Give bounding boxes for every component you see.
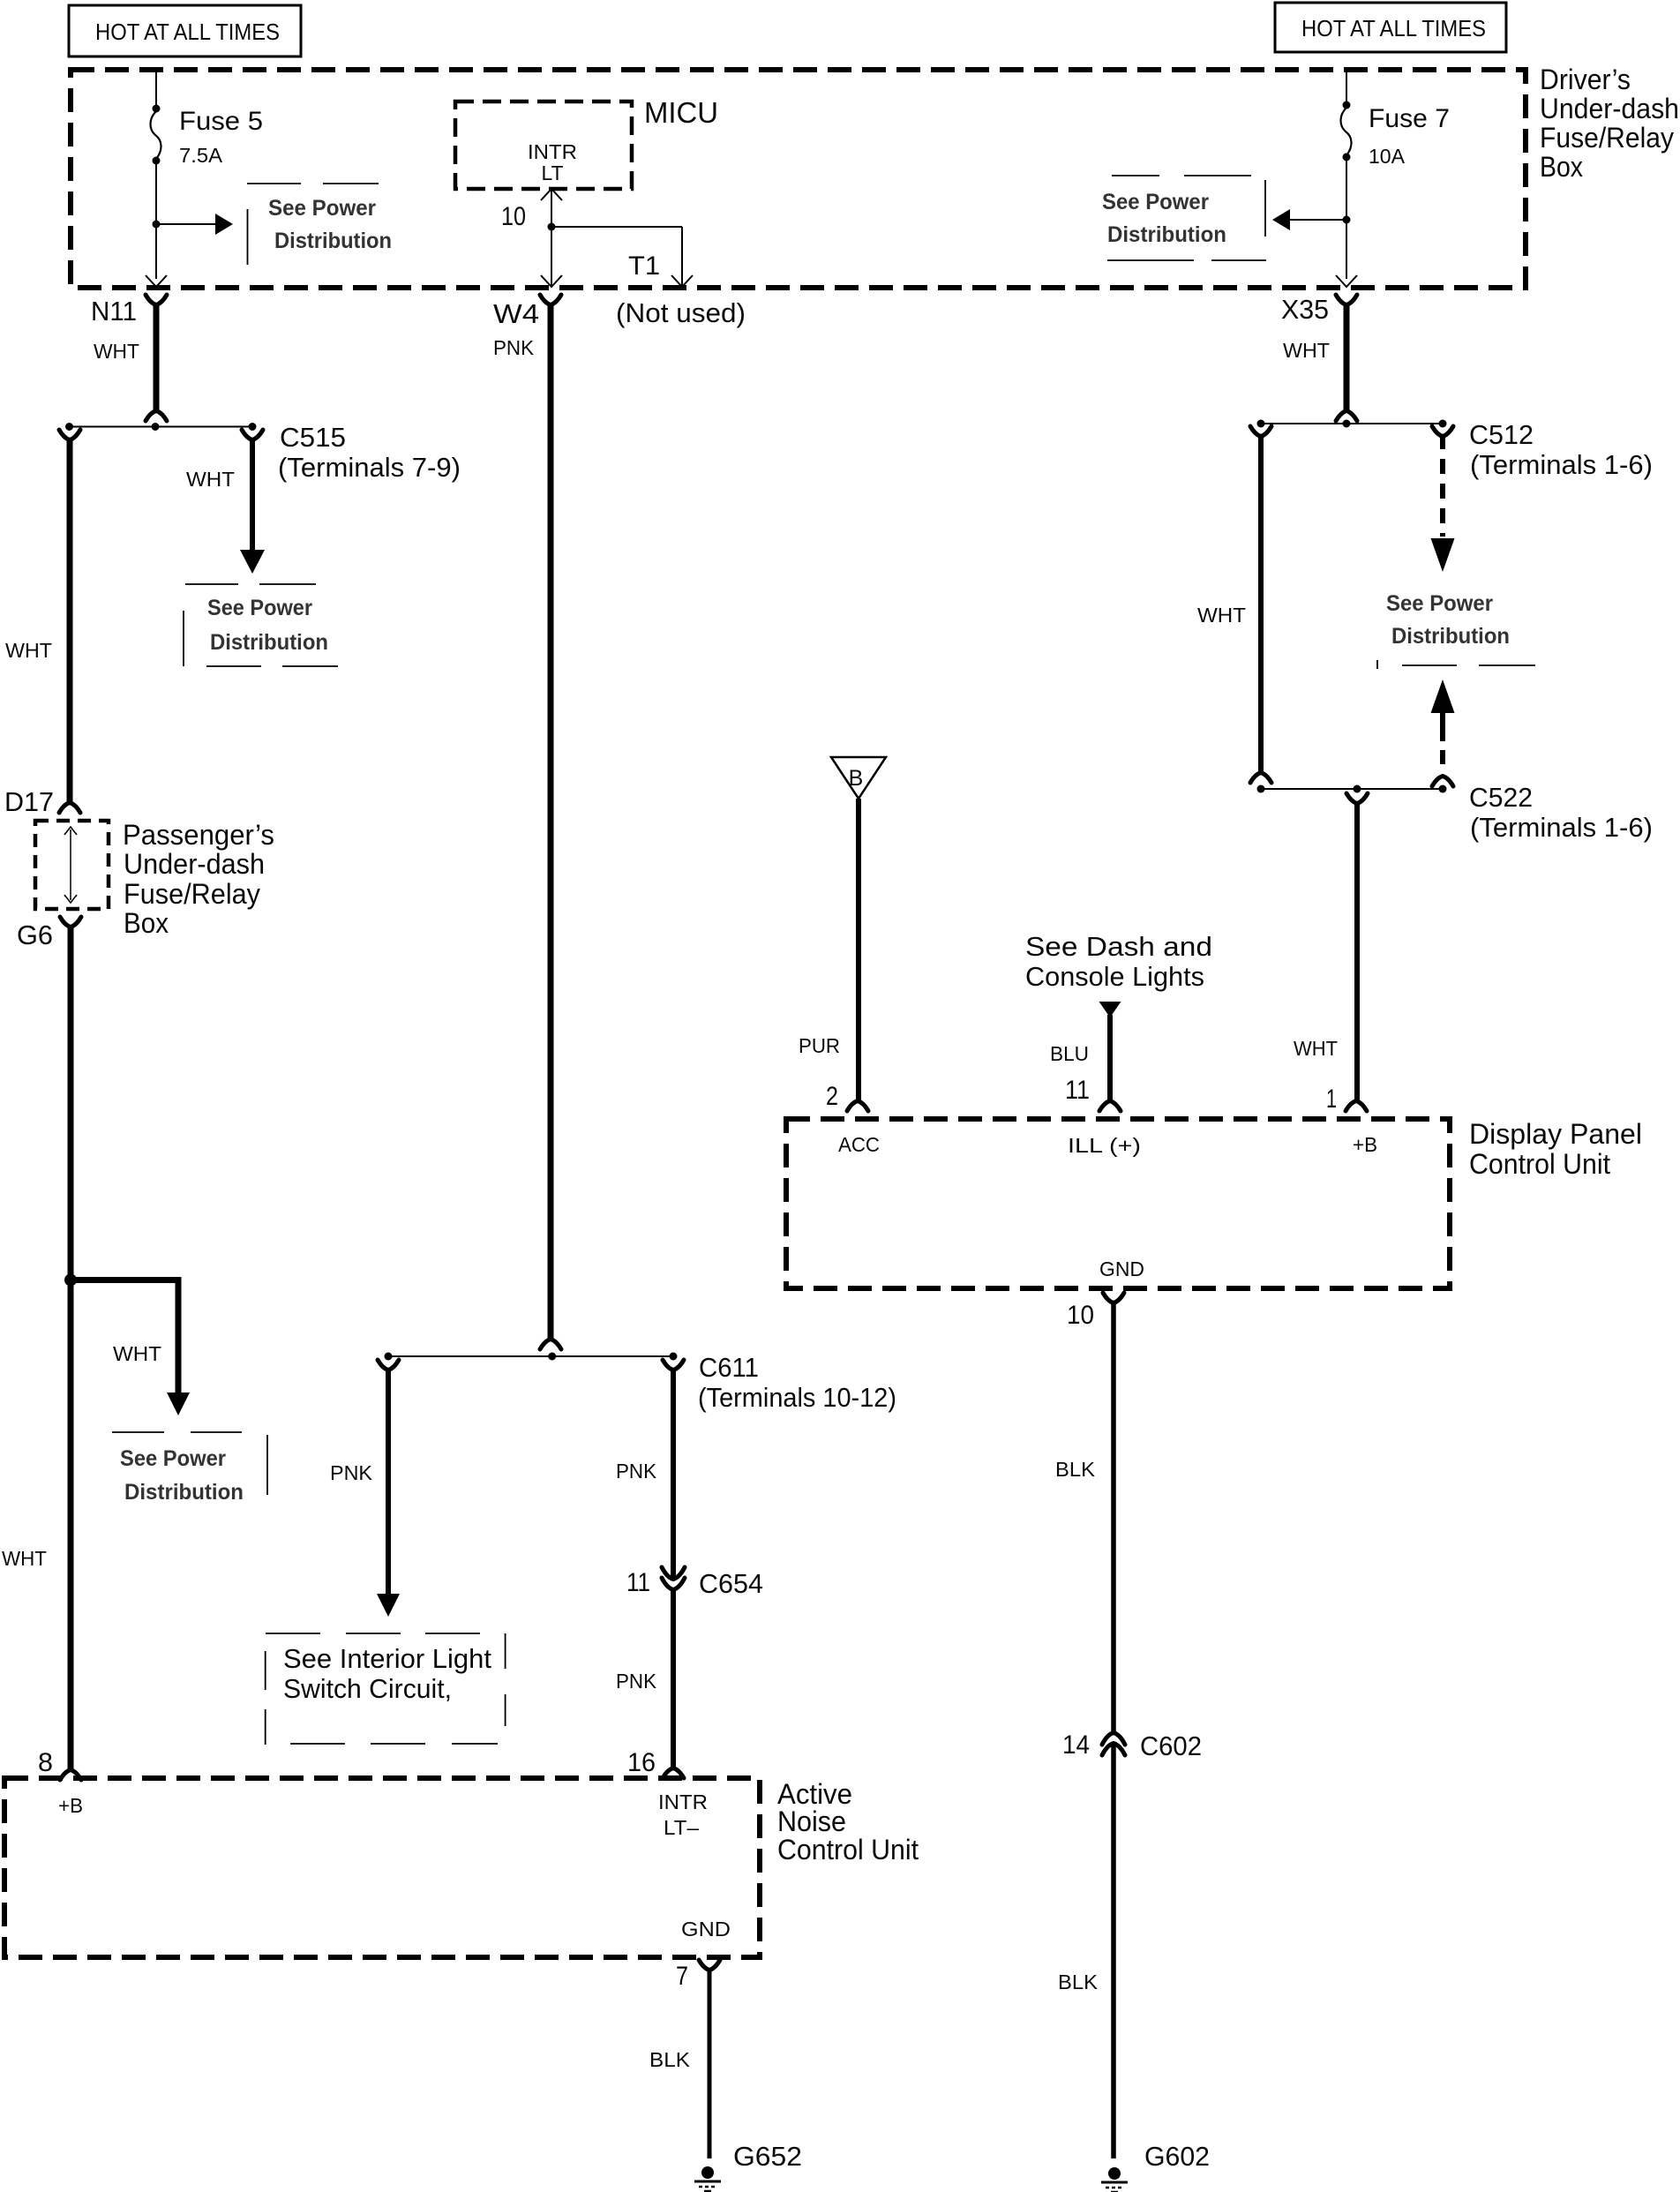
svg-text:ILL (+): ILL (+): [1068, 1134, 1141, 1157]
wire: display GND to C602 (BLK): [1103, 1293, 1124, 1733]
label: pin 10: [501, 202, 526, 231]
svg-text:C611: C611: [699, 1352, 759, 1383]
label: INTR LT pin: [528, 140, 577, 184]
open arrow into box edge at X35: [1336, 275, 1357, 287]
svg-text:BLK: BLK: [1055, 1458, 1096, 1481]
svg-text:Distribution: Distribution: [1107, 222, 1226, 247]
label: BLK (G652 wire): [649, 2048, 691, 2071]
open arrow into box edge at N11: [146, 275, 167, 287]
component box: Active Noise Control Unit: [4, 1778, 760, 1957]
svg-text:7: 7: [676, 1962, 688, 1991]
component box: MICU: [455, 101, 632, 189]
wire: X35 left branch (WHT): [1250, 426, 1271, 783]
svg-text:X35: X35: [1281, 294, 1329, 325]
wire: from box top to Fuse 5: [155, 71, 157, 107]
fuse F5 (Fuse 5, 7.5A): [151, 105, 161, 165]
label: +B pin (display): [1353, 1133, 1377, 1156]
reference: See Power Distribution (right middle): [1377, 591, 1535, 669]
inline connector C602 (pin 14): [1102, 1733, 1125, 1756]
label: Fuse 5 7.5A: [179, 107, 263, 167]
svg-text:See Power: See Power: [1386, 591, 1493, 616]
wire: up arrow to See Power Distribution: [1431, 679, 1455, 786]
label: 11 C654: [626, 1568, 763, 1599]
label: WHT (branch): [113, 1342, 161, 1365]
svg-text:Box: Box: [1540, 151, 1583, 183]
label: G6: [17, 920, 53, 950]
svg-text:PNK: PNK: [330, 1461, 373, 1484]
svg-text:Fuse 5: Fuse 5: [179, 107, 263, 136]
svg-text:14: 14: [1062, 1730, 1090, 1760]
label: pin 11: [1065, 1076, 1090, 1105]
label: Display Panel Control Unit: [1469, 1118, 1642, 1180]
svg-text:Box: Box: [124, 907, 169, 939]
svg-text:ACC: ACC: [838, 1133, 880, 1156]
label: pin 16: [627, 1748, 656, 1777]
svg-text:+B: +B: [1353, 1133, 1377, 1156]
svg-text:BLK: BLK: [649, 2048, 691, 2071]
label: GND pin (display): [1099, 1257, 1144, 1280]
svg-text:PNK: PNK: [616, 1670, 657, 1693]
svg-text:C515: C515: [280, 422, 346, 453]
svg-text:INTR: INTR: [658, 1790, 708, 1813]
label: MICU: [644, 96, 718, 129]
svg-text:(Terminals 1-6): (Terminals 1-6): [1470, 812, 1653, 843]
svg-text:PUR: PUR: [799, 1034, 840, 1057]
label: 14 C602: [1062, 1730, 1202, 1761]
svg-text:Distribution: Distribution: [210, 630, 328, 655]
svg-text:Distribution: Distribution: [1391, 624, 1510, 649]
wire: B to pin 2 (PUR): [847, 799, 868, 1111]
wire: fuse 5 to N11 exit: [153, 162, 161, 279]
double-arrow inside passenger box: [64, 827, 77, 903]
svg-text:8: 8: [38, 1748, 53, 1777]
svg-text:10: 10: [1067, 1301, 1094, 1330]
label: pin 10 (display GND): [1067, 1301, 1094, 1330]
svg-text:See Dash and: See Dash and: [1025, 931, 1212, 962]
label: Active Noise Control Unit: [777, 1778, 919, 1865]
label: BLK (lower): [1058, 1971, 1099, 1993]
label box: HOT AT ALL TIMES (right): [1275, 3, 1506, 52]
label: BLU: [1050, 1042, 1089, 1065]
svg-text:G6: G6: [17, 920, 53, 950]
inline connector C654 (pin 11): [662, 1567, 685, 1590]
wire: C522 to pin 1 (WHT): [1346, 793, 1368, 1111]
svg-text:Switch Circuit,: Switch Circuit,: [283, 1673, 452, 1704]
svg-text:7.5A: 7.5A: [179, 144, 223, 167]
ground G602: [1101, 2141, 1210, 2192]
svg-text:Driver’s: Driver’s: [1540, 64, 1631, 95]
label: WHT (X35 branch): [1197, 604, 1246, 627]
svg-text:LT–: LT–: [664, 1816, 699, 1839]
svg-text:(Not used): (Not used): [616, 297, 746, 328]
reference: See Power Distribution (lower left): [112, 1432, 267, 1505]
svg-text:11: 11: [626, 1568, 650, 1597]
svg-text:+B: +B: [58, 1794, 83, 1817]
component box: Display Panel Control Unit: [786, 1119, 1450, 1288]
reference: See Power Distribution (below C515): [184, 584, 338, 666]
svg-text:WHT: WHT: [5, 639, 52, 662]
svg-text:10A: 10A: [1369, 145, 1406, 168]
svg-text:Control Unit: Control Unit: [1469, 1148, 1610, 1180]
svg-text:GND: GND: [681, 1918, 731, 1941]
antenna node B: [831, 757, 886, 799]
svg-text:Under-dash: Under-dash: [124, 848, 265, 880]
svg-text:PNK: PNK: [493, 336, 535, 359]
reference: See Power Distribution (top right): [1102, 176, 1266, 260]
wire: branch to See Power Distribution (arrow left): [1272, 209, 1346, 230]
wire: D17 branch WHT (left): [59, 430, 80, 813]
svg-text:WHT: WHT: [2, 1547, 47, 1570]
svg-text:See Power: See Power: [120, 1446, 226, 1471]
wire: C602 to ground G602 (BLK): [1111, 1744, 1116, 2158]
label: Driver's Under-dash Fuse/Relay Box: [1540, 64, 1679, 183]
junction C515 (Terminals 7-9): [65, 423, 257, 431]
wire: C512 dashed arrow down: [1431, 426, 1455, 572]
svg-text:LT: LT: [542, 161, 564, 184]
svg-text:See Power: See Power: [207, 596, 312, 620]
label box: HOT AT ALL TIMES (left): [69, 5, 301, 56]
label: PNK (right branch upper): [616, 1460, 657, 1483]
svg-text:T1: T1: [628, 251, 660, 281]
svg-text:D17: D17: [4, 786, 54, 817]
label: C522 (Terminals 1-6): [1469, 782, 1653, 843]
svg-text:WHT: WHT: [1283, 339, 1330, 362]
svg-text:MICU: MICU: [644, 96, 718, 129]
svg-text:Distribution: Distribution: [124, 1480, 244, 1505]
svg-text:16: 16: [627, 1748, 656, 1777]
wire: pin 7 to ground G652 (BLK): [676, 1960, 720, 2158]
svg-text:Fuse/Relay: Fuse/Relay: [1540, 122, 1674, 154]
svg-text:See Interior Light: See Interior Light: [283, 1643, 491, 1674]
label: +B pin: [58, 1794, 83, 1817]
label: INTR LT- pin: [658, 1790, 708, 1839]
label: C515 (Terminals 7-9): [278, 422, 461, 483]
connector pin X35, wire WHT: [1336, 295, 1357, 421]
wire: C611 right branch to C654 (PNK): [663, 1360, 684, 1579]
svg-text:Distribution: Distribution: [274, 229, 392, 253]
svg-text:INTR: INTR: [528, 140, 577, 163]
reference: See Interior Light Switch Circuit: [266, 1633, 506, 1745]
reference: See Dash and Console Lights: [1025, 931, 1212, 992]
wire: G6 to Active Noise pin 8 (WHT): [60, 917, 81, 1780]
svg-text:WHT: WHT: [113, 1342, 161, 1365]
label: WHT (pin1 wire): [1294, 1037, 1338, 1060]
label: pin 2: [826, 1082, 838, 1111]
svg-text:BLK: BLK: [1058, 1971, 1099, 1993]
svg-text:WHT: WHT: [1197, 604, 1246, 627]
wire: C654 to Active Noise pin 16 (PNK): [663, 1589, 684, 1778]
svg-text:G602: G602: [1144, 2141, 1210, 2172]
svg-text:GND: GND: [1099, 1257, 1144, 1280]
label: WHT (left main wire): [5, 639, 52, 662]
svg-text:(Terminals 1-6): (Terminals 1-6): [1470, 449, 1653, 480]
svg-text:C602: C602: [1140, 1730, 1202, 1761]
svg-text:C522: C522: [1469, 782, 1533, 813]
svg-text:PNK: PNK: [616, 1460, 657, 1483]
wire: branch to See Power Distribution (arrow right): [156, 214, 233, 235]
junction dot on left wire: [64, 1274, 77, 1287]
label: PUR: [799, 1034, 840, 1057]
label: WHT (left wire lower): [2, 1547, 47, 1570]
label: pin 1: [1326, 1085, 1337, 1114]
svg-text:C654: C654: [699, 1568, 763, 1599]
connector pin N11, wire WHT: [146, 295, 167, 421]
label: C512 (Terminals 1-6): [1469, 419, 1653, 480]
svg-text:Passenger’s: Passenger’s: [123, 819, 274, 851]
wire: C515 branch arrow down: [240, 430, 265, 574]
svg-text:WHT: WHT: [186, 468, 235, 491]
svg-text:Under-dash: Under-dash: [1540, 93, 1679, 124]
wire: MICU pin 10 vertical: [541, 189, 562, 287]
svg-text:2: 2: [826, 1082, 838, 1111]
svg-text:See Power: See Power: [1102, 190, 1209, 214]
label: ACC pin: [838, 1133, 880, 1156]
label: W4 PNK: [493, 298, 539, 359]
label: (Not used): [616, 297, 746, 328]
label: X35 WHT: [1281, 294, 1330, 362]
fuse F7 (Fuse 7, 10A): [1341, 101, 1352, 161]
svg-text:HOT AT ALL TIMES: HOT AT ALL TIMES: [95, 19, 280, 45]
svg-text:Display Panel: Display Panel: [1469, 1118, 1642, 1150]
svg-text:BLU: BLU: [1050, 1042, 1089, 1065]
svg-text:Control Unit: Control Unit: [777, 1834, 919, 1865]
svg-text:C512: C512: [1469, 419, 1534, 450]
label: T1: [628, 251, 660, 281]
svg-text:See Power: See Power: [268, 196, 376, 221]
component box: Passenger's Under-dash Fuse/Relay Box: [35, 821, 109, 909]
label: PNK (left branch): [330, 1461, 373, 1484]
component box: Driver's Under-dash Fuse/Relay Box: [71, 70, 1526, 288]
junction C512 (Terminals 1-6): [1257, 420, 1447, 428]
svg-text:10: 10: [501, 202, 526, 231]
reference: See Power Distribution (top left): [247, 184, 392, 265]
svg-text:W4: W4: [493, 298, 539, 329]
label: GND pin (active noise): [681, 1918, 731, 1941]
wire: T1 branch (not used): [551, 227, 693, 287]
ground G652: [694, 2141, 802, 2191]
label: pin 8: [38, 1748, 53, 1777]
label: D17: [4, 786, 54, 817]
svg-text:Noise: Noise: [777, 1805, 846, 1837]
svg-text:1: 1: [1326, 1085, 1337, 1114]
svg-text:11: 11: [1065, 1076, 1090, 1105]
wire: branch to See Power Distribution (left, arrow down): [71, 1277, 190, 1415]
label: C611 (Terminals 10-12): [698, 1352, 896, 1413]
label: WHT (C515 branch): [186, 468, 235, 491]
svg-text:Console Lights: Console Lights: [1025, 961, 1204, 992]
svg-text:Fuse/Relay: Fuse/Relay: [124, 878, 260, 910]
junction C611 (Terminals 10-12): [385, 1353, 678, 1361]
svg-text:N11: N11: [91, 296, 137, 327]
wire: fuse 7 to X35 exit: [1343, 159, 1351, 279]
label: N11 WHT: [91, 296, 139, 363]
wire: dash lights to pin 11 (BLU), arrow down: [1099, 1002, 1121, 1111]
connector pin W4, wire PNK (long): [540, 295, 561, 1349]
wire: C611 left branch arrow (PNK): [377, 1360, 400, 1617]
svg-text:(Terminals 10-12): (Terminals 10-12): [698, 1382, 896, 1413]
label: PNK (lower): [616, 1670, 657, 1693]
label: Passenger's Under-dash Fuse/Relay Box: [123, 819, 274, 939]
label: Fuse 7 10A: [1369, 104, 1450, 168]
svg-text:(Terminals 7-9): (Terminals 7-9): [278, 452, 461, 483]
label: BLK (upper): [1055, 1458, 1096, 1481]
svg-text:Fuse 7: Fuse 7: [1369, 104, 1450, 133]
label: ILL (+) pin: [1068, 1134, 1141, 1157]
junction C522 (Terminals 1-6): [1257, 785, 1447, 793]
svg-text:WHT: WHT: [94, 340, 139, 363]
svg-text:WHT: WHT: [1294, 1037, 1338, 1060]
svg-text:B: B: [849, 766, 864, 791]
svg-text:HOT AT ALL TIMES: HOT AT ALL TIMES: [1301, 15, 1486, 41]
svg-text:G652: G652: [733, 2141, 802, 2172]
wire: from box top to Fuse 7: [1346, 71, 1347, 103]
